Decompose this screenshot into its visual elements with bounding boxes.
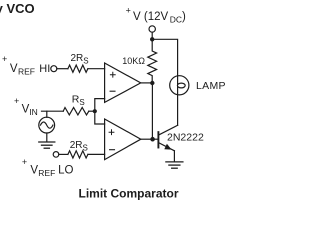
svg-text:LAMP: LAMP	[196, 80, 226, 92]
svg-text:+: +	[22, 157, 27, 167]
svg-text:S: S	[79, 98, 84, 107]
svg-text:+: +	[2, 54, 7, 64]
svg-text:+: +	[14, 96, 19, 106]
svg-text:y VCO: y VCO	[0, 1, 35, 16]
svg-text:V: V	[10, 63, 18, 75]
svg-text:V (12V: V (12V	[133, 11, 168, 23]
svg-text:10KΩ: 10KΩ	[122, 56, 145, 66]
svg-text:Limit Comparator: Limit Comparator	[79, 187, 179, 201]
svg-text:REF: REF	[18, 67, 35, 77]
svg-text:2R: 2R	[70, 140, 83, 151]
svg-text:S: S	[83, 144, 88, 153]
svg-text:2R: 2R	[71, 53, 84, 64]
svg-text:V: V	[30, 164, 38, 176]
svg-text:IN: IN	[29, 107, 38, 117]
svg-text:S: S	[83, 57, 88, 66]
svg-text:DC: DC	[170, 15, 182, 25]
svg-text:): )	[182, 11, 186, 23]
svg-text:LO: LO	[58, 164, 73, 176]
svg-text:2N2222: 2N2222	[167, 131, 204, 143]
svg-text:REF: REF	[38, 168, 55, 178]
svg-text:+: +	[126, 6, 131, 16]
svg-text:HI: HI	[39, 63, 50, 75]
